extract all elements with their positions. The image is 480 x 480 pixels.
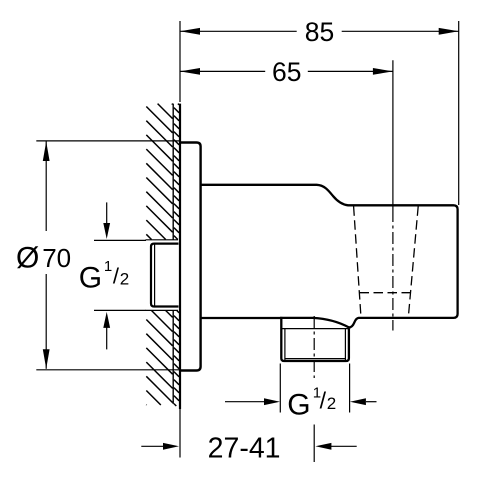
wall finish line (thin, inner hatch boundary) [172, 104, 174, 240]
dim 65: arrowheads [180, 68, 200, 75]
svg-text:85: 85 [305, 17, 334, 47]
wall inlet thread relief line [154, 244, 156, 307]
svg-text:2: 2 [120, 270, 129, 289]
dim 65: dimension line [180, 70, 265, 72]
wall inlet thread G1/2 (thin outer lines) [146, 240, 179, 311]
dim D70: dimension line [45, 142, 47, 232]
dim G1/2 inlet: extension line top [94, 239, 146, 241]
dim 85: dimension line [180, 30, 297, 32]
svg-text:G: G [287, 389, 310, 422]
wall hatching (masonry section) [146, 104, 179, 406]
wall inlet thread body [151, 244, 179, 307]
dim G1/2 inlet: arrow below [106, 325, 108, 349]
svg-text:1: 1 [104, 258, 112, 275]
dim D70: extension line bottom [36, 369, 180, 371]
dim 85: extension line left (above wall) [179, 21, 181, 102]
wall face line [179, 104, 181, 409]
dim G1/2 inlet: arrow above [106, 202, 108, 226]
svg-text:G: G [79, 261, 102, 294]
holder cone hidden line right [408, 206, 418, 317]
svg-text:65: 65 [272, 57, 301, 87]
dim G1/2 outlet: extension line right [349, 364, 351, 413]
svg-text:27-41: 27-41 [208, 432, 281, 464]
dim 85: arrowheads [180, 28, 200, 35]
dim G1/2 outlet: extension line left [279, 364, 281, 413]
svg-text:/: / [320, 388, 327, 414]
dim D70: arrowheads [43, 142, 50, 162]
holder cone hidden bottom edge [360, 292, 411, 294]
holder centre line (vertical, solid then dash-dot) [392, 60, 394, 210]
dim G1/2 inlet: extension line bottom [94, 309, 146, 311]
dim 85: extension line right [458, 21, 460, 205]
outlet centre line (vertical dash-dot) [313, 316, 315, 378]
dim G1/2 outlet: arrow left [225, 401, 264, 403]
dim D70: extension line top [36, 140, 180, 142]
body underside sweep into outlet [280, 318, 349, 328]
svg-text:2: 2 [327, 394, 336, 413]
dim G1/2 outlet: arrow right [366, 401, 377, 403]
svg-text:70: 70 [42, 243, 71, 273]
outlet thread lines G1/2 (thin) [282, 329, 348, 360]
dim 27-41: arrow right [330, 445, 357, 447]
svg-text:Ø: Ø [16, 242, 39, 275]
body outline (wall union with holder boss and outlet) [201, 185, 458, 361]
flange (wall escutcheon) [181, 143, 201, 371]
dim 27-41: arrow left [141, 445, 165, 447]
holder cone hidden line left [354, 206, 361, 317]
dim 27-41: extension line left (below wall) [179, 409, 181, 458]
